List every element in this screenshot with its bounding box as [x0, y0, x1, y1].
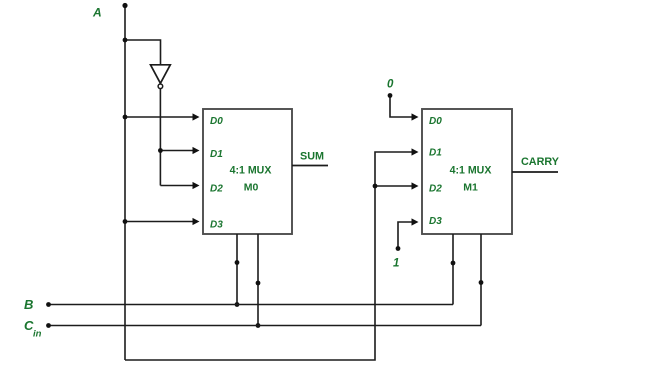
svg-text:D1: D1	[429, 148, 442, 159]
wire M0 select S0	[257, 234, 259, 326]
svg-text:D0: D0	[210, 116, 223, 127]
junction 0 terminal	[388, 93, 393, 98]
pin label D1 M1	[429, 148, 442, 159]
wire A vertical	[124, 5, 126, 360]
svg-text:CARRY: CARRY	[521, 156, 560, 168]
node 0 label	[387, 79, 394, 91]
svg-text:1: 1	[393, 258, 399, 270]
node Cin label	[24, 318, 42, 340]
wire 1 to D3 M1	[398, 222, 413, 249]
svg-text:D3: D3	[429, 216, 442, 227]
wire B horizontal	[48, 304, 453, 306]
arrowhead D1 M1	[412, 148, 419, 155]
node 1 label	[393, 258, 399, 270]
node CARRY label	[521, 156, 560, 168]
svg-text:D3: D3	[210, 220, 223, 231]
arrowhead D3 M1	[412, 218, 419, 225]
inverter NOT gate	[151, 65, 171, 89]
svg-text:B: B	[24, 297, 33, 312]
wire D1 input M0	[160, 150, 193, 152]
wire 0 to D0 M1	[390, 96, 413, 118]
svg-text:D2: D2	[429, 184, 442, 195]
pin label D2 M0	[210, 184, 223, 195]
junction S0-Cin	[256, 323, 261, 328]
arrowhead D2 M0	[193, 182, 200, 189]
arrowhead D3 M0	[193, 218, 200, 225]
wire Cin horizontal	[48, 325, 481, 327]
pin label D0 M1	[429, 116, 442, 127]
junction arrow select S0 M0	[256, 281, 261, 286]
pin label D0 M0	[210, 116, 223, 127]
label M0	[244, 182, 259, 194]
wire CARRY output	[512, 171, 558, 173]
wire M1 select S0	[480, 234, 482, 326]
svg-text:SUM: SUM	[300, 151, 324, 163]
wire D0 input M0	[125, 116, 194, 118]
wire D2 branch M1	[375, 185, 413, 187]
svg-text:M0: M0	[244, 182, 259, 194]
node A label	[92, 6, 102, 20]
label 4:1 MUX M1	[450, 165, 492, 177]
mux M0 box	[203, 109, 292, 234]
svg-text:A: A	[92, 6, 102, 20]
wire M0 select S1	[236, 234, 238, 305]
mux M1 box	[422, 109, 512, 234]
junction inverter-D1	[158, 148, 163, 153]
node SUM label	[300, 151, 324, 163]
wire D3 input M0	[125, 221, 194, 223]
svg-text:0: 0	[387, 79, 394, 91]
junction arrow select S1 M1	[451, 261, 456, 266]
pin label D1 M0	[210, 149, 223, 160]
junction A-D0	[123, 115, 128, 120]
arrowhead D2 M1	[412, 182, 419, 189]
wire M1 select S1	[452, 234, 454, 305]
label 4:1 MUX M0	[230, 165, 272, 177]
junction A-D3	[123, 219, 128, 224]
svg-text:M1: M1	[463, 182, 478, 194]
arrowhead D1 M0	[193, 147, 200, 154]
junction B terminal	[46, 302, 51, 307]
wire D2 input M0	[160, 185, 193, 187]
wire SUM output	[292, 165, 328, 167]
svg-text:D2: D2	[210, 184, 223, 195]
pin label D2 M1	[429, 184, 442, 195]
svg-text:in: in	[33, 329, 42, 340]
pin label D3 M1	[429, 216, 442, 227]
junction Cin terminal	[46, 323, 51, 328]
junction S1-B	[235, 302, 240, 307]
svg-text:D0: D0	[429, 116, 442, 127]
junction arrow select S1 M0	[235, 260, 240, 265]
pin label D3 M0	[210, 220, 223, 231]
svg-text:4:1 MUX: 4:1 MUX	[450, 165, 492, 177]
junction 1 terminal	[396, 246, 401, 251]
wire A feedback bottom	[125, 152, 413, 360]
svg-text:4:1 MUX: 4:1 MUX	[230, 165, 272, 177]
node B label	[24, 297, 33, 312]
wire branch A to inverter input	[125, 40, 161, 65]
wire inverter output vertical	[159, 89, 161, 186]
junction A top terminal	[122, 3, 127, 8]
label M1	[463, 182, 478, 194]
arrowhead D0 M0	[193, 113, 200, 120]
svg-text:D1: D1	[210, 149, 223, 160]
junction A-branch	[123, 38, 128, 43]
junction A-D2 M1	[373, 184, 378, 189]
junction arrow select S0 M1	[479, 280, 484, 285]
arrowhead D0 M1	[412, 113, 419, 120]
